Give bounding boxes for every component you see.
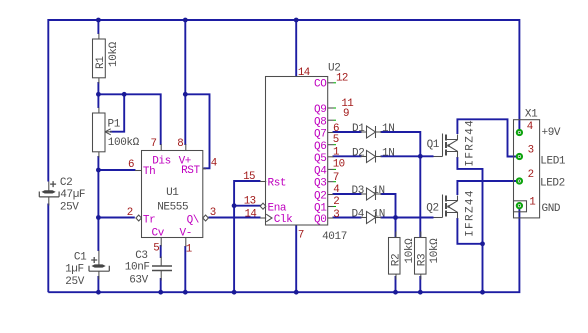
svg-text:5: 5 [153, 243, 159, 255]
capacitor C2 (electrolytic) [39, 181, 59, 205]
wire: R3 bottom to ground [419, 276, 421, 292]
X1 pad 3 (LED1) [517, 154, 522, 159]
svg-text:10nF: 10nF [125, 262, 150, 274]
junction wiper / harness [122, 92, 127, 97]
diode D3 1N [361, 188, 382, 200]
wire: D3 cathode to R2 column [381, 194, 396, 237]
wire: U2 Rst to ground column [234, 181, 260, 292]
svg-text:NE555: NE555 [157, 201, 188, 213]
wire: Q0 to D4 [333, 217, 362, 219]
svg-text:1: 1 [333, 146, 339, 158]
wire: left rail below C2 [47, 204, 49, 293]
diode D2 1N [361, 151, 382, 163]
svg-text:8: 8 [177, 138, 183, 150]
svg-text:R2: R2 [391, 254, 403, 266]
svg-text:Q4: Q4 [314, 165, 327, 177]
svg-text:4: 4 [211, 158, 217, 170]
svg-text:X1: X1 [525, 108, 538, 120]
svg-text:Q5: Q5 [314, 153, 326, 165]
pin stub Q5 wire side [328, 156, 334, 158]
svg-text:Tr: Tr [143, 214, 155, 226]
wire: Th to junction [98, 169, 135, 171]
junction top rail at V+ column [183, 18, 188, 23]
svg-text:1: 1 [529, 197, 535, 209]
transistor Q1 IFRZ44 (n-mosfet) [434, 134, 458, 158]
svg-text:1µF: 1µF [65, 264, 84, 276]
wire: Th/Dis harness y=94 [98, 94, 160, 145]
svg-text:R1: R1 [95, 56, 107, 69]
junction ground rail at Rst/Ena column [232, 290, 237, 295]
junction D4 / R2 top [393, 215, 398, 220]
svg-text:1N: 1N [382, 123, 394, 135]
svg-text:Q2: Q2 [314, 190, 326, 202]
svg-text:1N: 1N [373, 209, 385, 221]
svg-text:D4: D4 [352, 209, 365, 221]
svg-text:Q\: Q\ [187, 214, 199, 226]
svg-text:D2: D2 [352, 148, 364, 160]
X1 pad 2 (LED2) [517, 178, 522, 183]
wire: Tr to junction [98, 217, 134, 219]
svg-text:13: 13 [244, 196, 256, 208]
svg-text:3: 3 [333, 209, 339, 221]
svg-text:47µF: 47µF [60, 189, 85, 201]
svg-text:Q0: Q0 [314, 214, 326, 226]
svg-text:Q7: Q7 [314, 129, 326, 141]
wire: X1 LED2 to Q2 drain [457, 181, 516, 195]
diode D1 1N [361, 126, 382, 138]
svg-text:Th: Th [143, 166, 155, 178]
pin stub Q2 wire side [328, 194, 334, 196]
wire: D4 cathode to Q2 gate [381, 217, 434, 219]
svg-text:RST: RST [181, 165, 200, 177]
capacitor C1 (electrolytic) [89, 251, 109, 280]
svg-text:12: 12 [336, 73, 348, 85]
svg-text:3: 3 [528, 144, 534, 156]
junction ground rail at source bus [480, 290, 485, 295]
svg-text:CO: CO [314, 79, 327, 91]
svg-text:14: 14 [298, 67, 310, 79]
wire: Q2 to D3 [333, 193, 362, 195]
resistor R1 [93, 34, 106, 84]
svg-text:10kΩ: 10kΩ [404, 238, 416, 264]
junction source bus / Q2 source [480, 241, 485, 246]
pin stub Q6 (5) [328, 144, 336, 146]
wire: R1/P1/C1 column [97, 20, 99, 292]
resistor R3 [415, 232, 427, 280]
svg-text:2: 2 [528, 169, 534, 181]
svg-text:1N: 1N [382, 148, 394, 160]
wire: +9V top rail [48, 20, 519, 182]
junction R1 bottom / P1 top / harness [96, 92, 101, 97]
svg-text:C2: C2 [60, 177, 72, 189]
svg-text:4: 4 [527, 121, 533, 133]
svg-text:4017: 4017 [322, 231, 347, 243]
svg-text:5: 5 [333, 134, 339, 146]
svg-text:Q9: Q9 [314, 104, 326, 116]
svg-text:D1: D1 [352, 123, 365, 135]
svg-text:IFRZ44: IFRZ44 [465, 189, 477, 237]
svg-text:25V: 25V [60, 202, 79, 214]
wire: R2 bottom to ground [395, 276, 397, 292]
wire: U2 pin14 from +9V rail [295, 20, 297, 76]
junction ground rail at V- [183, 290, 188, 295]
pin stub Q1 (2) [328, 206, 336, 208]
svg-text:4: 4 [333, 184, 339, 196]
junction Th row [96, 168, 101, 173]
pin stub Q3 (7) [328, 181, 336, 183]
junction top rail at U2 pin14 [294, 18, 299, 23]
wire: V+ column [184, 20, 186, 145]
svg-text:Q3: Q3 [314, 178, 326, 190]
junction ground rail at R3 [418, 290, 423, 295]
wire: U1 Q out to U2 Clk [208, 217, 260, 219]
X1 pad 1 (GND) [517, 203, 522, 208]
svg-text:1: 1 [186, 244, 192, 256]
svg-text:Q2: Q2 [426, 203, 438, 215]
svg-text:10kΩ: 10kΩ [429, 238, 441, 264]
op-amp U1 NE555 box [135, 144, 208, 247]
svg-text:P1: P1 [108, 118, 121, 130]
junction Tr row [96, 215, 101, 220]
svg-text:V-: V- [180, 228, 192, 240]
svg-text:1N: 1N [372, 185, 384, 197]
X1 pad 4 (+9V) [517, 130, 522, 135]
junction ground rail at U2 pin7 [294, 290, 299, 295]
resistor R2 [389, 232, 401, 280]
svg-text:10kΩ: 10kΩ [108, 41, 120, 67]
pin stub Q9 (11) [328, 107, 336, 109]
wire: Q1 drain to X1 LED1 [457, 119, 516, 156]
connector X1 pads [517, 130, 522, 208]
pin stub Q0 wire side [328, 217, 334, 219]
IC U2 4017 box [260, 77, 328, 226]
svg-text:Q6: Q6 [314, 141, 326, 153]
wire: D2 cathode to junction [381, 155, 421, 157]
svg-text:7: 7 [333, 172, 339, 184]
junction ground rail at R2 [393, 290, 398, 295]
svg-text:7: 7 [151, 138, 157, 150]
junction ground rail at C1 [96, 290, 101, 295]
junction V+ / RST branch [183, 92, 188, 97]
svg-text:14: 14 [245, 208, 257, 220]
svg-text:Q8: Q8 [314, 116, 326, 128]
svg-text:100kΩ: 100kΩ [108, 137, 140, 149]
svg-text:GND: GND [542, 203, 561, 215]
connector X1 box [514, 120, 540, 218]
svg-text:IFRZ44: IFRZ44 [465, 119, 477, 167]
pin stub Q7 wire side [328, 132, 334, 134]
svg-text:Ena: Ena [268, 202, 287, 214]
junction D2 / Q1 gate [418, 154, 423, 159]
wire: P1 wiper to harness [110, 94, 124, 131]
svg-text:Cv: Cv [152, 228, 165, 240]
wire: D1 cathode to Q1 gate column [381, 132, 421, 237]
svg-text:3: 3 [210, 207, 216, 219]
wire: Q1 source to source bus [457, 157, 482, 292]
wire: U1 V- to ground [184, 246, 186, 292]
svg-text:6: 6 [128, 159, 134, 171]
wire: C3 to ground [160, 278, 162, 292]
svg-text:10: 10 [333, 159, 345, 171]
svg-text:9: 9 [343, 108, 349, 120]
wire: U2 Ena to ground column [234, 205, 261, 207]
svg-text:U1: U1 [166, 187, 179, 199]
wire: Q1 gate wire [420, 155, 433, 157]
svg-text:15: 15 [243, 171, 255, 183]
svg-text:Rst: Rst [268, 178, 287, 190]
svg-text:7: 7 [298, 230, 304, 242]
svg-text:C1: C1 [74, 252, 87, 264]
svg-text:25V: 25V [65, 276, 84, 288]
capacitor C3 (ceramic) [152, 257, 172, 281]
svg-text:2: 2 [127, 207, 133, 219]
transistor Q2 IFRZ44 (n-mosfet) [434, 195, 458, 219]
svg-text:LED2: LED2 [540, 178, 565, 190]
junction Ena row [232, 203, 237, 208]
svg-text:Q1: Q1 [427, 139, 440, 151]
svg-text:LED1: LED1 [540, 156, 566, 168]
wire: U2 pin7 to ground [295, 225, 297, 293]
svg-text:R3: R3 [416, 254, 428, 266]
pin stub Q8 (9) [328, 119, 336, 121]
U2 unconnected pin stubs with green tips [328, 83, 336, 218]
svg-text:C3: C3 [135, 250, 147, 262]
wire: Q5 to D2 [333, 155, 362, 157]
svg-text:Clk: Clk [274, 214, 293, 226]
X1 pad center dots [519, 132, 521, 134]
svg-text:D3: D3 [352, 185, 364, 197]
wire: Q7 to D1 [333, 131, 362, 133]
pin stub Q4 (10) [328, 168, 336, 170]
pin stub CO (12) [328, 82, 336, 84]
svg-text:2: 2 [333, 196, 339, 208]
svg-text:63V: 63V [129, 274, 148, 286]
svg-text:+9V: +9V [542, 127, 561, 139]
junction ground rail at C3 [158, 290, 163, 295]
junction top rail at R1 [96, 18, 101, 23]
wire: Cv to C3 [160, 245, 162, 258]
wire: GND bottom rail [48, 207, 519, 292]
wire: Q2 source to source bus [457, 218, 482, 244]
svg-text:Q1: Q1 [314, 203, 327, 215]
diode D4 1N [361, 212, 382, 224]
wire: RST branch [185, 94, 209, 168]
trimmer P1 [93, 108, 113, 158]
